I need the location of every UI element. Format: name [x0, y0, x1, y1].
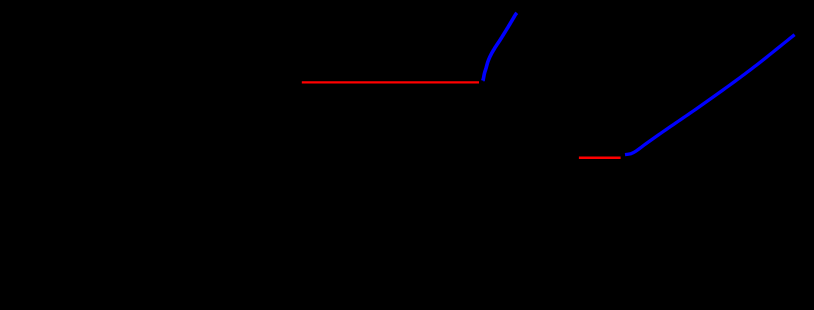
- right plot: blue rising curve of piecewise function: [625, 35, 795, 155]
- right plot: red flat segment of piecewise function: [579, 156, 621, 159]
- left plot: red flat segment of piecewise function: [302, 81, 479, 83]
- left plot: blue rising curve of piecewise function: [483, 13, 517, 81]
